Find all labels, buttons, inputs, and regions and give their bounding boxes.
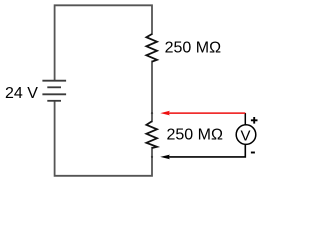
svg-text:24 V: 24 V xyxy=(5,85,38,102)
svg-text:250 MΩ: 250 MΩ xyxy=(165,40,221,57)
svg-text:V: V xyxy=(240,127,250,144)
svg-text:250 MΩ: 250 MΩ xyxy=(167,126,223,143)
